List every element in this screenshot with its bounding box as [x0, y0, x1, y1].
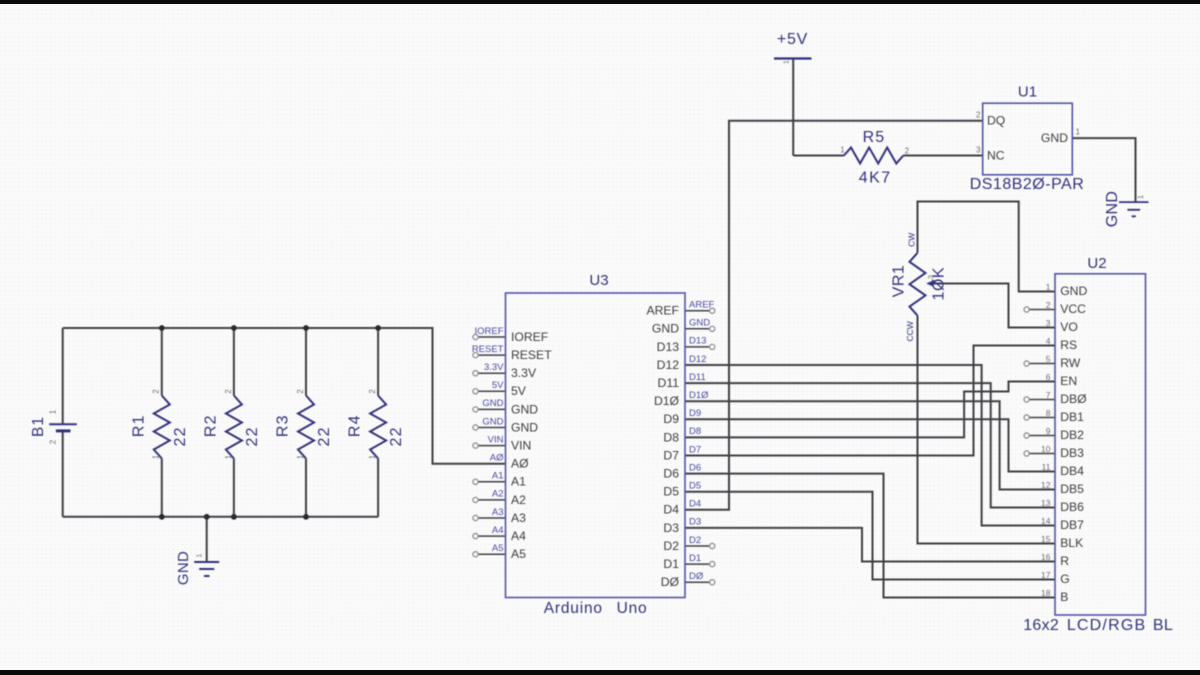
svg-text:2: 2 — [905, 147, 910, 156]
svg-text:DB2: DB2 — [1060, 428, 1084, 442]
svg-text:5: 5 — [1046, 354, 1051, 364]
svg-text:D3: D3 — [689, 517, 701, 528]
svg-text:GND: GND — [1041, 131, 1068, 145]
svg-text:D9: D9 — [689, 408, 701, 419]
svg-text:D1Ø: D1Ø — [654, 394, 680, 408]
svg-text:6: 6 — [1046, 372, 1051, 382]
svg-text:D11: D11 — [658, 376, 680, 390]
svg-text:D3: D3 — [663, 521, 679, 535]
svg-text:18: 18 — [1041, 588, 1051, 598]
svg-text:R5: R5 — [863, 129, 885, 146]
svg-text:D5: D5 — [689, 481, 701, 492]
svg-text:D6: D6 — [663, 467, 679, 481]
svg-text:D1Ø: D1Ø — [689, 390, 709, 401]
svg-text:7: 7 — [1046, 390, 1051, 400]
svg-text:GND: GND — [1104, 191, 1121, 227]
svg-text:BL: BL — [1153, 617, 1173, 634]
svg-text:D1: D1 — [689, 553, 701, 564]
svg-text:RW: RW — [1060, 356, 1081, 370]
svg-text:AØ: AØ — [511, 457, 529, 471]
svg-text:U1: U1 — [1018, 84, 1037, 101]
svg-text:22: 22 — [244, 426, 261, 446]
svg-text:1: 1 — [1076, 128, 1081, 137]
svg-text:5V: 5V — [492, 380, 504, 391]
svg-text:1: 1 — [1046, 282, 1051, 292]
svg-text:DS18B2Ø-PAR: DS18B2Ø-PAR — [970, 176, 1085, 193]
svg-text:5V: 5V — [511, 384, 527, 398]
svg-text:IOREF: IOREF — [474, 326, 503, 337]
svg-text:Uno: Uno — [617, 600, 648, 617]
svg-text:GND: GND — [689, 318, 710, 329]
svg-text:D5: D5 — [663, 485, 679, 499]
svg-text:8: 8 — [1046, 408, 1051, 418]
svg-text:A2: A2 — [511, 493, 526, 507]
svg-text:EN: EN — [1060, 374, 1077, 388]
svg-text:3.3V: 3.3V — [511, 366, 537, 380]
svg-text:VCC: VCC — [1060, 302, 1086, 316]
svg-text:1: 1 — [48, 409, 57, 414]
svg-text:VIN: VIN — [511, 439, 531, 453]
svg-text:DB7: DB7 — [1060, 518, 1084, 532]
svg-text:R4: R4 — [347, 414, 364, 437]
svg-text:D8: D8 — [663, 430, 679, 444]
svg-text:2: 2 — [296, 389, 305, 394]
svg-text:GND: GND — [511, 402, 538, 416]
svg-text:10: 10 — [1041, 444, 1051, 454]
svg-text:LCD/RGB: LCD/RGB — [1067, 617, 1147, 634]
svg-text:RESET: RESET — [472, 344, 504, 355]
svg-text:B: B — [1060, 590, 1068, 604]
svg-text:GND: GND — [482, 416, 503, 427]
svg-text:1: 1 — [368, 454, 377, 459]
svg-text:1: 1 — [782, 60, 791, 64]
svg-text:CW: CW — [907, 233, 917, 247]
svg-text:A3: A3 — [511, 511, 526, 525]
svg-text:2: 2 — [368, 389, 377, 394]
svg-text:AØ: AØ — [490, 453, 504, 464]
svg-text:3: 3 — [1046, 318, 1051, 328]
svg-text:22: 22 — [388, 426, 405, 446]
svg-text:2: 2 — [1046, 300, 1051, 310]
svg-text:3.3V: 3.3V — [484, 362, 504, 373]
svg-text:2: 2 — [224, 389, 233, 394]
svg-text:VR1: VR1 — [891, 265, 908, 298]
svg-text:CCW: CCW — [905, 321, 915, 341]
svg-text:2: 2 — [976, 111, 981, 120]
svg-text:D11: D11 — [689, 372, 706, 383]
svg-text:GND: GND — [1060, 284, 1087, 298]
svg-text:4K7: 4K7 — [859, 170, 892, 187]
svg-text:DB3: DB3 — [1060, 446, 1084, 460]
svg-text:A3: A3 — [492, 507, 504, 518]
svg-text:RESET: RESET — [511, 348, 552, 362]
svg-text:1ØK: 1ØK — [931, 267, 948, 301]
svg-text:GND: GND — [652, 322, 679, 336]
svg-text:15: 15 — [1041, 534, 1051, 544]
svg-text:GND: GND — [511, 420, 538, 434]
svg-text:1: 1 — [195, 553, 204, 557]
svg-text:2: 2 — [152, 389, 161, 394]
svg-text:D9: D9 — [663, 412, 679, 426]
svg-text:IOREF: IOREF — [511, 330, 548, 344]
svg-text:A2: A2 — [492, 489, 504, 500]
svg-text:4: 4 — [1046, 336, 1051, 346]
svg-text:1: 1 — [1136, 195, 1145, 199]
svg-text:R1: R1 — [130, 414, 147, 437]
svg-text:A5: A5 — [492, 543, 504, 554]
svg-text:1: 1 — [840, 145, 845, 154]
svg-text:D2: D2 — [689, 535, 701, 546]
svg-text:RS: RS — [1060, 338, 1077, 352]
svg-text:DB1: DB1 — [1060, 410, 1084, 424]
svg-text:DB5: DB5 — [1060, 482, 1084, 496]
svg-text:1: 1 — [296, 454, 305, 459]
svg-text:D12: D12 — [689, 354, 706, 365]
svg-text:D4: D4 — [689, 499, 701, 510]
svg-text:D1: D1 — [663, 557, 679, 571]
svg-text:D7: D7 — [689, 444, 701, 455]
svg-text:U3: U3 — [589, 272, 608, 289]
svg-text:D2: D2 — [663, 539, 679, 553]
svg-text:A1: A1 — [492, 471, 504, 482]
svg-text:AREF: AREF — [689, 300, 715, 311]
svg-text:B1: B1 — [30, 416, 47, 437]
svg-text:1: 1 — [224, 454, 233, 459]
svg-text:22: 22 — [316, 426, 333, 446]
svg-text:D8: D8 — [689, 426, 701, 437]
svg-text:DØ: DØ — [661, 575, 680, 589]
svg-text:A4: A4 — [511, 529, 526, 543]
svg-text:DB4: DB4 — [1060, 464, 1084, 478]
svg-text:GND: GND — [175, 551, 192, 585]
svg-text:3: 3 — [926, 275, 935, 279]
svg-text:16x2: 16x2 — [1023, 617, 1059, 634]
svg-text:3: 3 — [976, 146, 981, 155]
svg-text:R3: R3 — [275, 414, 292, 437]
svg-text:G: G — [1060, 572, 1069, 586]
svg-text:D13: D13 — [689, 336, 706, 347]
svg-text:17: 17 — [1041, 570, 1051, 580]
svg-text:A4: A4 — [492, 525, 504, 536]
svg-text:A5: A5 — [511, 547, 526, 561]
svg-text:A1: A1 — [511, 475, 526, 489]
svg-text:DBØ: DBØ — [1060, 392, 1087, 406]
svg-text:D13: D13 — [657, 340, 680, 354]
svg-text:D6: D6 — [689, 462, 701, 473]
svg-text:DQ: DQ — [987, 114, 1005, 128]
svg-text:GND: GND — [482, 398, 503, 409]
svg-text:11: 11 — [1042, 462, 1051, 472]
svg-text:DB6: DB6 — [1060, 500, 1084, 514]
svg-text:BLK: BLK — [1060, 536, 1083, 550]
svg-text:R: R — [1060, 554, 1069, 568]
svg-text:12: 12 — [1041, 480, 1051, 490]
svg-text:22: 22 — [172, 426, 189, 446]
svg-text:16: 16 — [1041, 552, 1051, 562]
svg-text:D7: D7 — [663, 448, 679, 462]
svg-text:9: 9 — [1046, 426, 1051, 436]
svg-text:U2: U2 — [1087, 255, 1106, 272]
svg-text:VO: VO — [1060, 320, 1078, 334]
svg-text:14: 14 — [1041, 516, 1051, 526]
svg-text:AREF: AREF — [646, 304, 679, 318]
svg-text:D4: D4 — [663, 503, 679, 517]
svg-text:1: 1 — [152, 454, 161, 459]
svg-text:D12: D12 — [657, 358, 680, 372]
svg-text:NC: NC — [987, 148, 1005, 162]
svg-text:13: 13 — [1041, 498, 1051, 508]
svg-text:Arduino: Arduino — [544, 600, 603, 617]
svg-text:DØ: DØ — [689, 571, 704, 582]
svg-text:+5V: +5V — [777, 31, 808, 48]
svg-text:VIN: VIN — [488, 434, 504, 445]
svg-text:R2: R2 — [202, 414, 219, 437]
svg-text:2: 2 — [49, 439, 58, 444]
